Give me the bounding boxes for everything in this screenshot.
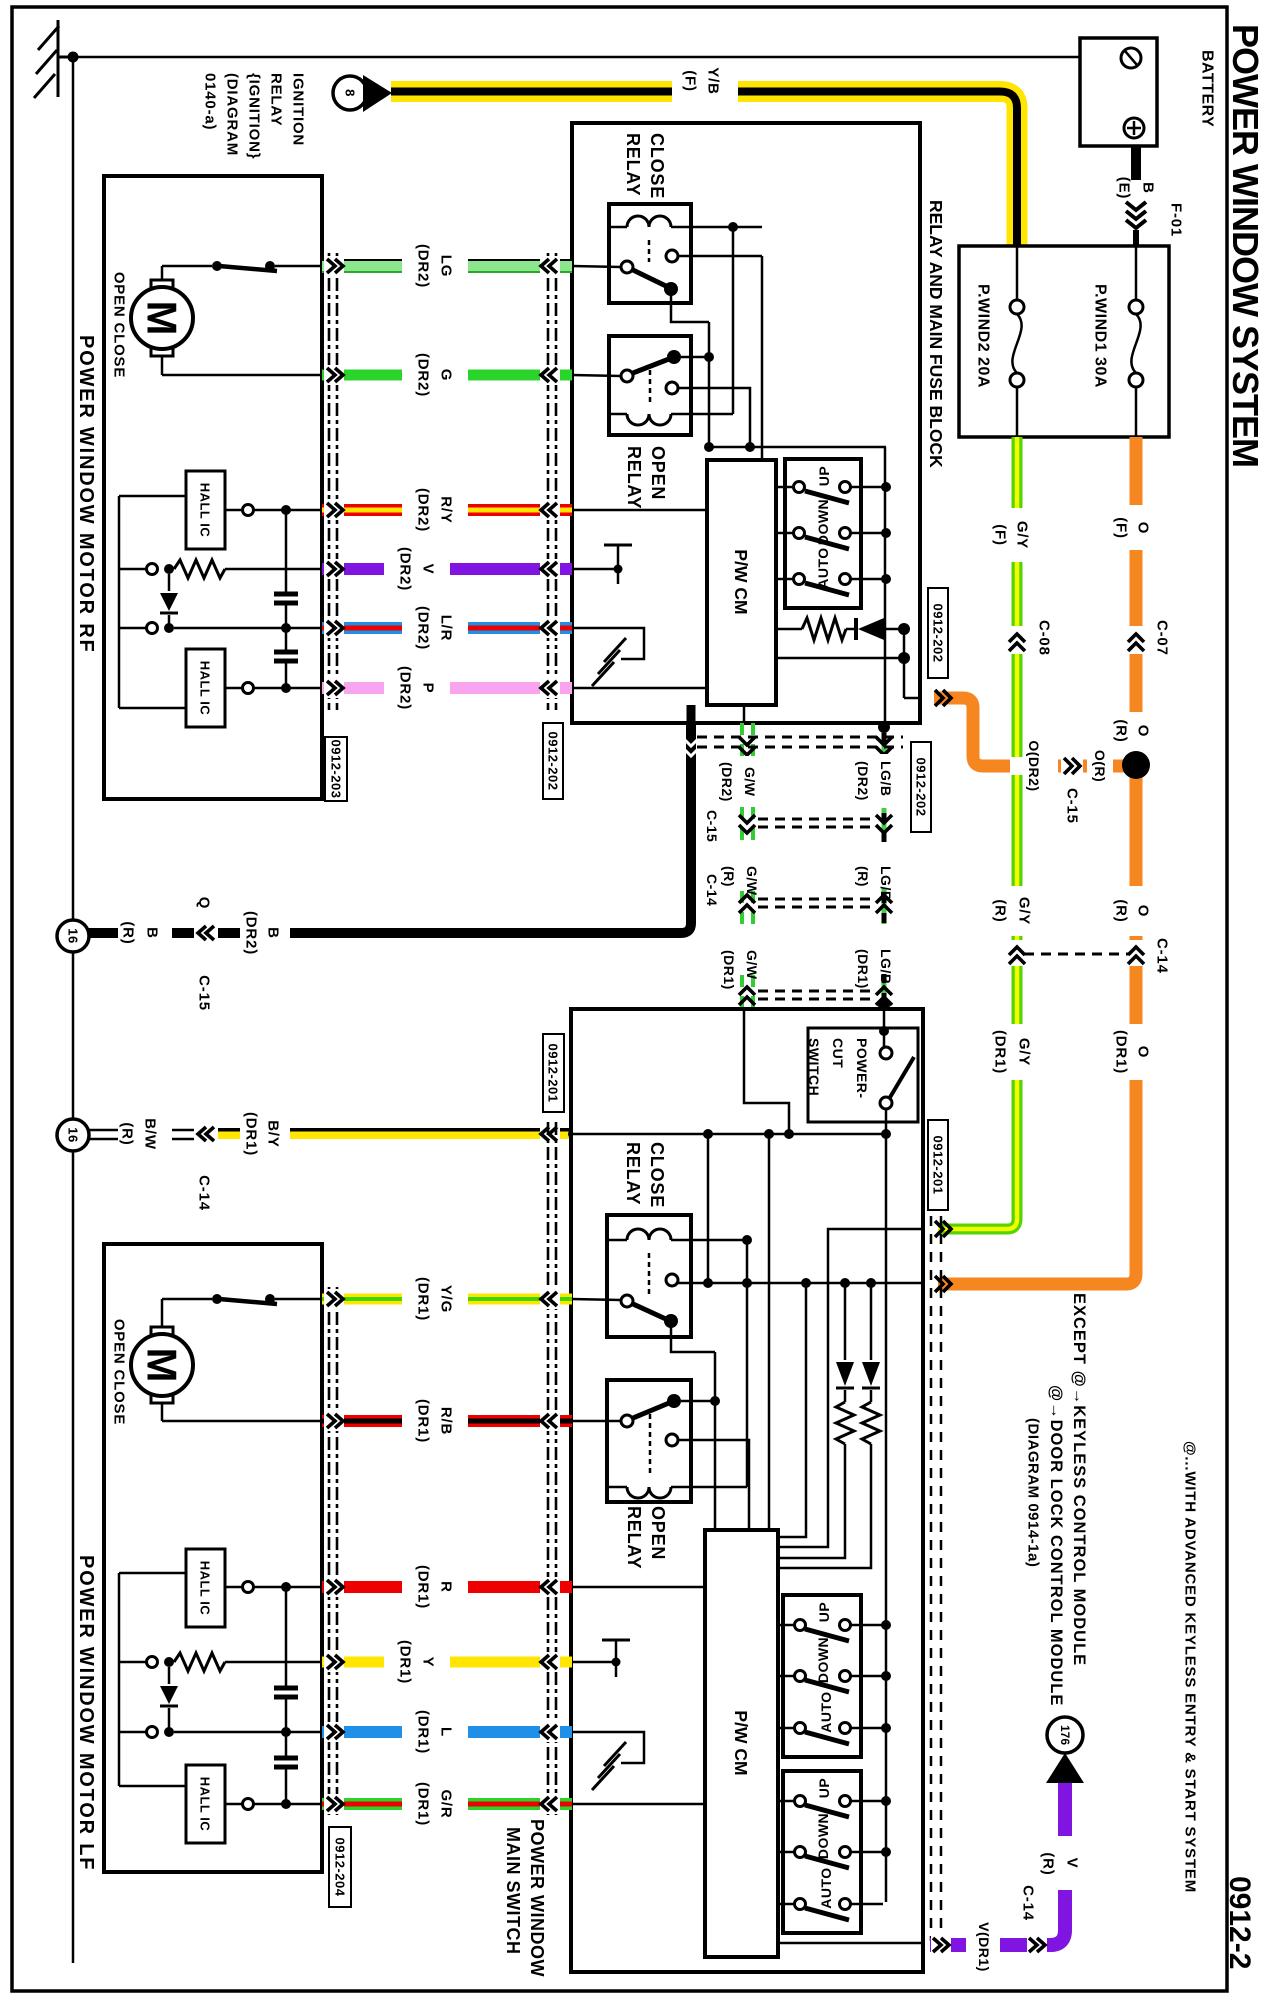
- wire relay3 coil rail: [691, 1239, 747, 1242]
- capacitor C4 (LF): [285, 1699, 288, 1756]
- connector box 0912-201 (left): [543, 1034, 564, 1112]
- wire P (DR2): [322, 666, 572, 710]
- relay K2 open relay (RF): [609, 336, 691, 435]
- svg-text:Y: Y: [420, 1657, 437, 1668]
- arrow into Y/B wire: [363, 75, 392, 112]
- connector F-01: [1126, 202, 1146, 228]
- svg-text:RELAY: RELAY: [623, 133, 643, 196]
- wire dashed pair h4 (0912-201 connector): [758, 991, 877, 999]
- connector circle 8 (ignition relay feed): [333, 76, 367, 110]
- connector dash lines 0912-203: [329, 253, 337, 710]
- connector dash lines 0912-202 left: [548, 253, 556, 710]
- hall IC 2 (RF): [186, 649, 225, 727]
- svg-text:P/W CM: P/W CM: [731, 549, 751, 614]
- connector dash lines 0912-204: [329, 1287, 337, 1815]
- svg-text:G/R: G/R: [438, 1789, 455, 1818]
- diode D1 (RF block): [846, 628, 856, 631]
- svg-text:F-01: F-01: [1168, 203, 1185, 237]
- wire R stub into P/W CM: [571, 1586, 705, 1589]
- svg-text:B/W: B/W: [142, 1118, 159, 1150]
- dashed variant-region boundary lines: [931, 1216, 941, 1941]
- svg-text:(R): (R): [120, 921, 137, 944]
- svg-text:(R): (R): [119, 1122, 136, 1145]
- svg-text:C-07: C-07: [1154, 620, 1171, 656]
- label IGNITION RELAY {IGNITION} (DIAGRAM 0140-a): [202, 73, 307, 159]
- wire: top ground rail to battery: [73, 56, 1080, 59]
- svg-text:M: M: [139, 301, 186, 336]
- connector box 0912-203: [325, 737, 347, 801]
- resistor R2 chain: [836, 1402, 854, 1444]
- svg-text:R/Y: R/Y: [438, 496, 455, 523]
- note EXCEPT keyless / door lock modules: [1025, 1293, 1089, 1706]
- ground (LF block): [592, 1742, 626, 1790]
- wire B thick black (motor ground): [88, 723, 691, 933]
- svg-text:O: O: [1135, 725, 1152, 737]
- fuse P.WIND1 30A: [1092, 246, 1144, 437]
- svg-text:C-14: C-14: [196, 1175, 213, 1211]
- wire L row: [147, 1727, 158, 1738]
- wire hall1 out (R/Y row): [225, 509, 322, 512]
- svg-text:16: 16: [66, 1127, 81, 1142]
- wire O inside rail: [845, 1282, 923, 1285]
- svg-text:EXCEPT @→KEYLESS CONTROL MODUL: EXCEPT @→KEYLESS CONTROL MODULE: [1070, 1293, 1088, 1666]
- connector C-14 on B/Y wire: [194, 1122, 218, 1147]
- svg-text:0912-204: 0912-204: [333, 1838, 348, 1897]
- svg-text:(DR1): (DR1): [415, 1565, 432, 1609]
- switch unit B UP/DOWN/AUTO (LF): [783, 1771, 861, 1933]
- power window motor RF block: [104, 176, 322, 799]
- svg-text:(F): (F): [682, 70, 699, 92]
- wire relay1 coil rail: [691, 226, 762, 229]
- svg-text:OPEN: OPEN: [648, 446, 668, 500]
- capacitor C1 (RF): [285, 510, 288, 592]
- svg-text:BATTERY: BATTERY: [1199, 50, 1216, 127]
- wire P stub into P/W CM: [572, 687, 707, 690]
- svg-text:AUTO: AUTO: [818, 1691, 834, 1732]
- wire dashed pair h1 (0912-202 connector): [697, 737, 903, 747]
- svg-text:Y/B: Y/B: [705, 67, 722, 94]
- svg-text:OPEN: OPEN: [648, 1506, 668, 1560]
- wire relay2 fixed out: [678, 388, 750, 447]
- svg-text:LG/B: LG/B: [878, 866, 894, 901]
- svg-text:O: O: [1135, 905, 1152, 917]
- capacitor C2 (RF): [285, 605, 288, 650]
- svg-text:(DR2): (DR2): [855, 761, 871, 801]
- svg-text:(F): (F): [1113, 517, 1130, 539]
- svg-text:(DR2): (DR2): [243, 911, 260, 955]
- connector box 0912-204: [329, 1827, 351, 1907]
- svg-text:(R): (R): [1040, 1852, 1057, 1875]
- svg-text:SWITCH: SWITCH: [806, 1038, 822, 1096]
- svg-text:Q: Q: [196, 897, 213, 909]
- svg-text:G/W: G/W: [742, 767, 758, 797]
- svg-text:C-08: C-08: [1036, 620, 1053, 656]
- diode D3 chain: [870, 1283, 873, 1360]
- wire R/B (DR1): [322, 1399, 572, 1443]
- svg-text:C-14: C-14: [1154, 938, 1171, 974]
- svg-text:C-14: C-14: [704, 874, 720, 906]
- wire G/W inside stub: [743, 705, 746, 723]
- power cut switch: [806, 1028, 918, 1122]
- svg-text:0912-202: 0912-202: [546, 732, 561, 791]
- hall IC 1 (LF): [186, 1549, 225, 1627]
- resistor R3 chain: [862, 1402, 880, 1444]
- wire thick black inside stub: [687, 705, 696, 723]
- svg-text:O(DR2): O(DR2): [1026, 740, 1042, 791]
- svg-text:LG/B: LG/B: [878, 949, 894, 984]
- resistor (LF motor): [147, 1657, 158, 1668]
- svg-text:V: V: [1064, 1858, 1081, 1869]
- svg-text:(DR2): (DR2): [415, 606, 432, 650]
- wire hall supply rail (LF): [119, 1573, 186, 1786]
- chevron at O branch start: [935, 690, 951, 706]
- wire V out line: [778, 1942, 923, 1945]
- wire R (DR1): [322, 1565, 572, 1609]
- svg-text:DOWN: DOWN: [815, 1813, 831, 1859]
- wire: C-14 dashed connector link: [1024, 953, 1128, 956]
- connector C-14 (O): [1128, 947, 1144, 964]
- svg-text:MAIN SWITCH: MAIN SWITCH: [503, 1827, 523, 1954]
- svg-text:RELAY: RELAY: [624, 446, 644, 509]
- wire V purple (to keyless module): [930, 1783, 1074, 1954]
- wire fan line 1: [776, 1283, 806, 1537]
- wire V (DR2): [322, 547, 572, 591]
- power window motor LF block: [104, 1244, 322, 1872]
- switch unit UP/DOWN/AUTO (RF): [785, 459, 861, 608]
- svg-text:C-15: C-15: [704, 810, 720, 842]
- svg-text:P: P: [420, 683, 437, 694]
- svg-text:0912-202: 0912-202: [931, 604, 946, 663]
- svg-text:(DR1): (DR1): [415, 1277, 432, 1321]
- svg-text:(E): (E): [1116, 177, 1133, 199]
- connector C-14 (G/Y): [1009, 947, 1025, 964]
- svg-text:B/Y: B/Y: [265, 1120, 282, 1147]
- connector box 0912-202 (right lower): [911, 742, 931, 832]
- wire hall2 out (P row): [225, 687, 322, 690]
- svg-text:(DR2): (DR2): [415, 244, 432, 288]
- svg-text:{IGNITION}: {IGNITION}: [246, 73, 263, 159]
- svg-text:(DR1): (DR1): [397, 1640, 414, 1684]
- node: ground junction dot: [68, 52, 79, 63]
- connector C-15 (O branch): [1064, 758, 1080, 774]
- svg-text:IGNITION: IGNITION: [290, 73, 307, 146]
- svg-text:L/R: L/R: [438, 615, 455, 642]
- svg-text:OPEN CLOSE: OPEN CLOSE: [111, 272, 128, 378]
- wire relay4 fixed out: [678, 1440, 749, 1530]
- wire G/Y vertical (fuse to main switch): [938, 437, 1026, 1229]
- svg-text:POWER WINDOW SYSTEM: POWER WINDOW SYSTEM: [1225, 24, 1266, 467]
- wire right power rail: [885, 1134, 888, 1902]
- svg-text:(DR2): (DR2): [415, 488, 432, 532]
- battery: [1080, 38, 1216, 146]
- svg-text:B: B: [265, 927, 282, 939]
- wire B/Y (DR1): [218, 1112, 572, 1156]
- junction circle 16 (B wire): [57, 920, 89, 952]
- svg-text:(F): (F): [992, 524, 1009, 546]
- svg-text:HALL IC: HALL IC: [198, 1777, 213, 1832]
- wire LG/B entry to power cut switch: [883, 1009, 886, 1047]
- svg-text:L: L: [438, 1727, 455, 1737]
- svg-text:G: G: [438, 369, 455, 381]
- wire P/W CM out to orange: [776, 657, 904, 660]
- wire feed rail drops: [707, 1134, 710, 1282]
- svg-text:@...WITH ADVANCED KEYLESS ENTR: @...WITH ADVANCED KEYLESS ENTRY & START …: [1182, 1441, 1199, 1893]
- svg-text:(DR2): (DR2): [719, 762, 735, 802]
- svg-text:0912-203: 0912-203: [329, 740, 344, 799]
- svg-text:176: 176: [1058, 1725, 1072, 1745]
- svg-text:CLOSE: CLOSE: [647, 1142, 667, 1208]
- svg-text:G/Y: G/Y: [1014, 521, 1031, 549]
- connector dash lines 0912-201 left: [548, 1122, 556, 1815]
- svg-text:R: R: [438, 1581, 455, 1593]
- svg-text:HALL IC: HALL IC: [198, 1561, 213, 1616]
- svg-text:AUTO: AUTO: [815, 547, 831, 588]
- svg-text:C-15: C-15: [196, 975, 213, 1011]
- relay K3 close relay (LF): [607, 1215, 691, 1337]
- svg-text:LG: LG: [438, 255, 455, 277]
- svg-text:B: B: [144, 927, 161, 939]
- svg-text:UP: UP: [816, 1602, 832, 1622]
- zener diode (LF motor): [168, 1667, 171, 1684]
- wire switch feed rail: [707, 446, 886, 449]
- wire G/W dashed vertical: [742, 723, 753, 1009]
- relay K4 open relay (LF): [607, 1380, 691, 1502]
- wire Y (DR1): [322, 1640, 572, 1684]
- svg-text:P/W CM: P/W CM: [731, 1710, 751, 1775]
- switch (motor LF open/close): [212, 1294, 222, 1304]
- connector C-07: [1128, 634, 1144, 651]
- svg-text:RELAY: RELAY: [624, 1506, 644, 1569]
- P/W CM module (RF): [707, 460, 776, 705]
- wire relay1 lever out: [671, 291, 709, 322]
- wire B (E) battery to fuse block: [1131, 146, 1141, 180]
- svg-text:M: M: [139, 1348, 186, 1383]
- svg-text:0912-201: 0912-201: [931, 1136, 946, 1195]
- svg-text:RELAY: RELAY: [623, 1142, 643, 1205]
- chevron at G/Y end: [935, 1221, 951, 1237]
- wire relay2 lever out: [681, 356, 709, 359]
- relay and main fuse block (fuse box): [959, 246, 1169, 437]
- wire relay2 coil lead: [691, 413, 733, 416]
- svg-text:(R): (R): [855, 866, 871, 887]
- wire Y stub termination: [571, 1661, 616, 1664]
- svg-text:(R): (R): [1113, 719, 1130, 742]
- svg-text:O: O: [1135, 1046, 1152, 1058]
- svg-text:UP: UP: [816, 466, 832, 486]
- svg-text:Y/G: Y/G: [438, 1285, 455, 1313]
- svg-text:(DR1): (DR1): [992, 1030, 1009, 1074]
- svg-text:(DR2): (DR2): [397, 666, 414, 710]
- connector box 0912-201 (right of main switch): [928, 1120, 948, 1210]
- svg-text:OPEN CLOSE: OPEN CLOSE: [111, 1319, 128, 1425]
- wire R/Y (DR2): [322, 488, 572, 532]
- svg-text:(R): (R): [1113, 899, 1130, 922]
- wire LG stub into relay: [572, 266, 621, 267]
- connector box 0912-202 (left): [543, 723, 563, 799]
- wire relay3 lever out: [671, 1323, 715, 1352]
- svg-text:RELAY: RELAY: [268, 73, 285, 126]
- chevron at V wire block end: [933, 1938, 949, 1952]
- connector Q / C-15 on B wire: [194, 921, 218, 946]
- svg-text:16: 16: [66, 928, 81, 943]
- connector C-14 (V wire): [1029, 1938, 1045, 1952]
- resistor R1 (RF block): [776, 628, 802, 631]
- relay K1 close relay (RF): [609, 204, 691, 303]
- svg-text:(DR1): (DR1): [415, 1399, 432, 1443]
- svg-text:R/B: R/B: [438, 1407, 455, 1435]
- svg-text:@→DOOR LOCK CONTROL MODULE: @→DOOR LOCK CONTROL MODULE: [1047, 1385, 1065, 1706]
- wire O branch (relay block to O vertical): [934, 698, 1136, 775]
- svg-text:(DR1): (DR1): [415, 1782, 432, 1826]
- wire V stub termination: [572, 568, 618, 571]
- ground (top left chassis ground): [34, 20, 73, 98]
- capacitor C3 (LF): [285, 1587, 288, 1686]
- svg-text:(DR1): (DR1): [1113, 1030, 1130, 1074]
- svg-text:P.WIND2 20A: P.WIND2 20A: [975, 284, 992, 388]
- wire: left ground bus (vertical): [72, 57, 75, 1963]
- wire hall1 out (R row): [225, 1586, 322, 1589]
- label B (R): [118, 921, 172, 946]
- svg-text:0140-a): 0140-a): [202, 73, 219, 130]
- svg-text:(R): (R): [721, 866, 737, 887]
- svg-text:POWER WINDOW: POWER WINDOW: [527, 1819, 547, 1977]
- arrow to circle 176: [1046, 1753, 1084, 1783]
- svg-text:0912-2: 0912-2: [1223, 1876, 1256, 1969]
- wire R/Y stub into P/W CM: [572, 509, 707, 512]
- wire G/Y inside path: [776, 1229, 923, 1547]
- wire L/R stub to ground: [572, 628, 644, 659]
- wire G/W entry path: [744, 1009, 789, 1134]
- switch (motor RF open/close): [212, 261, 222, 271]
- svg-text:(DR2): (DR2): [415, 353, 432, 397]
- svg-text:(DR1): (DR1): [721, 950, 737, 990]
- svg-text:POWER WINDOW MOTOR LF: POWER WINDOW MOTOR LF: [75, 1555, 97, 1871]
- motor M (LF): [151, 1327, 173, 1340]
- wire Y/G stub into relay: [571, 1299, 621, 1300]
- svg-text:(DR1): (DR1): [415, 1710, 432, 1754]
- wire L/R (DR2): [322, 606, 572, 650]
- svg-text:RELAY AND MAIN FUSE BLOCK: RELAY AND MAIN FUSE BLOCK: [926, 200, 946, 468]
- svg-text:0912-202: 0912-202: [914, 758, 929, 817]
- svg-text:POWER-: POWER-: [854, 1038, 870, 1099]
- svg-text:G/Y: G/Y: [1016, 1038, 1033, 1066]
- svg-text:P.WIND1 30A: P.WIND1 30A: [1092, 284, 1109, 388]
- svg-text:DOWN: DOWN: [815, 1637, 831, 1683]
- P/W CM module (LF): [705, 1530, 778, 1957]
- svg-text:POWER WINDOW MOTOR RF: POWER WINDOW MOTOR RF: [75, 335, 97, 654]
- wire O vertical (fuse to main switch): [938, 437, 1145, 1284]
- svg-text:B: B: [1140, 182, 1157, 194]
- svg-text:(R): (R): [992, 899, 1009, 922]
- wire L/R row: [147, 623, 158, 634]
- svg-text:C-15: C-15: [1064, 788, 1081, 824]
- svg-text:V: V: [420, 564, 437, 575]
- svg-text:G/W: G/W: [744, 950, 760, 980]
- svg-text:(DR1): (DR1): [855, 949, 871, 989]
- wire B/W (R) outline wire: [89, 1129, 196, 1132]
- svg-text:HALL IC: HALL IC: [198, 483, 213, 538]
- wire switch row stubs: [776, 487, 886, 579]
- chevrons G/W and LG/B crossings: [739, 737, 892, 1005]
- wire switch A stubs: [778, 1625, 886, 1728]
- wire R/B stub into relay: [571, 1420, 621, 1423]
- chevrons carved on thick black: [683, 738, 699, 756]
- wire LG (DR2): [322, 244, 572, 288]
- wire L stub to ground: [571, 1732, 644, 1763]
- svg-text:G/Y: G/Y: [1016, 897, 1033, 925]
- wire dashed pair h3 (C-14): [758, 899, 877, 907]
- connector C-08: [1009, 634, 1025, 651]
- zener diode (RF motor): [168, 574, 171, 591]
- svg-text:CUT: CUT: [830, 1038, 846, 1068]
- svg-text:LG/B: LG/B: [878, 761, 894, 796]
- wire relay4 lever out: [681, 1400, 715, 1403]
- svg-text:0912-201: 0912-201: [546, 1044, 561, 1103]
- svg-text:V(DR1): V(DR1): [976, 1922, 992, 1972]
- relay and main fuse block (RF door relay block): [572, 123, 920, 723]
- power window main switch block: [571, 1009, 923, 1972]
- wire Y/G (DR1): [322, 1277, 572, 1321]
- svg-text:(DR2): (DR2): [397, 547, 414, 591]
- motor M (RF): [151, 280, 173, 293]
- svg-text:(DIAGRAM: (DIAGRAM: [224, 73, 241, 156]
- wire G/R (DR1): [322, 1782, 572, 1826]
- junction circle 16 (B/W wire): [57, 1119, 89, 1151]
- svg-text:C-14: C-14: [1020, 1885, 1037, 1921]
- wire switch B stubs: [778, 1801, 886, 1904]
- svg-text:O(R): O(R): [1092, 750, 1108, 782]
- wire B/Y feed rail: [571, 1133, 886, 1136]
- resistor (RF motor): [147, 564, 158, 575]
- wire Y/B (F) thick yellow/black feed: [391, 67, 1017, 246]
- svg-text:(DR1): (DR1): [243, 1112, 260, 1156]
- wire relay rail 1282: [678, 1282, 850, 1285]
- diode D2 chain: [844, 1283, 847, 1360]
- wire LG/B dashed vertical: [882, 723, 887, 1009]
- wire hall2 out (G/R row): [225, 1803, 322, 1806]
- chevron at O end: [935, 1276, 951, 1292]
- switch unit A UP/DOWN/AUTO (LF): [783, 1595, 861, 1757]
- hall IC 2 (LF): [186, 1765, 225, 1843]
- connector circle 176: [1047, 1717, 1083, 1753]
- wire L (DR1): [322, 1710, 572, 1754]
- fuse P.WIND2 20A: [975, 246, 1025, 437]
- wire G (DR2): [322, 353, 572, 397]
- svg-text:AUTO: AUTO: [818, 1867, 834, 1908]
- hall IC 1 (RF): [186, 471, 225, 549]
- wire hall supply rail (RF): [119, 496, 186, 708]
- node: orange junction dot: [1122, 751, 1150, 779]
- wire G/R stub into P/W CM: [571, 1803, 705, 1806]
- svg-text:G/W: G/W: [744, 866, 760, 896]
- svg-text:HALL IC: HALL IC: [198, 661, 213, 716]
- ground (RF block): [592, 638, 626, 686]
- svg-text:8: 8: [343, 89, 358, 97]
- wire G stub into relay: [572, 375, 621, 376]
- label B (DR2): [240, 921, 290, 946]
- wire dashed pair h2 (C-15): [758, 819, 877, 827]
- connector box 0912-202 (right upper): [928, 588, 948, 678]
- svg-text:O: O: [1135, 522, 1152, 534]
- svg-text:(DIAGRAM 0914-1a): (DIAGRAM 0914-1a): [1025, 1418, 1042, 1567]
- svg-text:CLOSE: CLOSE: [647, 133, 667, 199]
- svg-text:UP: UP: [816, 1778, 832, 1798]
